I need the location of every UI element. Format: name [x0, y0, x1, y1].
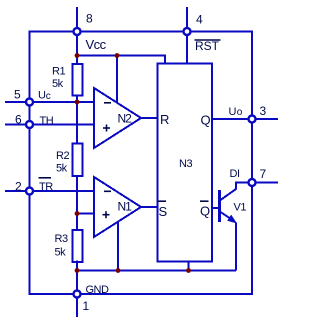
wire Vcc drop to R1: [76, 32, 78, 65]
N1 minus input symbol: [104, 190, 111, 192]
svg-text:Q: Q: [200, 203, 210, 218]
junction N2 supply: [115, 53, 120, 58]
svg-text:RST: RST: [195, 39, 220, 53]
N2 plus input symbol: [103, 127, 110, 129]
pin 1 external lead: [76, 294, 78, 317]
RST overline: [195, 39, 221, 41]
svg-text:N1: N1: [118, 200, 133, 214]
wire N2 output to R input: [140, 117, 158, 119]
wire Q output to pin 3: [212, 118, 252, 120]
transistor V1: [218, 190, 221, 222]
pin 7: [249, 179, 256, 186]
svg-text:S: S: [159, 204, 168, 219]
wire pin2 TR to N1 minus: [30, 190, 95, 192]
svg-text:5k: 5k: [56, 163, 68, 175]
svg-text:5k: 5k: [55, 247, 67, 259]
wire Vcc rail: [77, 56, 165, 65]
wire Qbar to base: [212, 207, 219, 209]
pin 7 external lead: [252, 182, 278, 184]
wire R3 to ground node: [76, 261, 78, 295]
op-amp N1: [94, 177, 141, 237]
wire N3 bottom stub: [188, 262, 190, 271]
svg-text:c: c: [46, 91, 51, 102]
wire bottom rail: [77, 270, 236, 272]
N2 minus input symbol: [104, 102, 111, 104]
wire N1 supply: [117, 222, 119, 271]
svg-text:GND: GND: [86, 284, 110, 296]
svg-text:TR: TR: [39, 181, 53, 193]
pin 4: [184, 28, 191, 35]
svg-text:Vcc: Vcc: [86, 37, 107, 52]
S overline: [158, 200, 166, 202]
transistor V1 emitter arrow: [227, 215, 237, 224]
pin 6 external lead: [5, 124, 30, 126]
pin 3: [249, 116, 256, 123]
svg-text:1: 1: [83, 299, 90, 313]
junction N3 stub/rail: [186, 268, 191, 273]
svg-text:3: 3: [260, 104, 267, 118]
wire pin5 to N2 minus: [30, 101, 95, 103]
svg-text:U: U: [229, 106, 237, 118]
svg-text:R3: R3: [55, 233, 68, 245]
svg-text:6: 6: [15, 112, 22, 126]
svg-text:R1: R1: [52, 66, 65, 78]
pin 2 external lead: [5, 190, 30, 192]
TR overline: [39, 177, 52, 179]
wire divider tap to N1 plus: [77, 213, 94, 215]
svg-text:DI: DI: [230, 168, 240, 180]
svg-text:5k: 5k: [52, 78, 64, 90]
pin 4 external lead: [186, 7, 188, 32]
svg-text:TH: TH: [40, 115, 54, 127]
junction N1 supply/rail: [116, 268, 121, 273]
svg-text:Q: Q: [201, 113, 211, 128]
Qbar overline: [200, 200, 209, 202]
resistor R3: [73, 230, 83, 262]
pin 8 external lead: [76, 7, 78, 32]
resistor R2: [73, 144, 83, 177]
op-amp N2: [94, 88, 141, 148]
resistor R1: [73, 64, 83, 96]
wire R2 to R3 chain: [76, 176, 78, 231]
wire R1 to R2 chain: [76, 95, 78, 144]
junction divider/N1 plus: [75, 211, 80, 216]
svg-text:N2: N2: [118, 112, 133, 126]
junction Vcc/R1: [75, 53, 80, 58]
svg-text:R: R: [160, 112, 169, 127]
svg-text:N3: N3: [179, 158, 192, 170]
svg-text:2: 2: [15, 179, 22, 193]
pin 1: [74, 291, 81, 298]
svg-text:R2: R2: [56, 150, 69, 162]
svg-text:8: 8: [86, 12, 93, 26]
svg-text:U: U: [38, 90, 46, 102]
pin 6: [26, 121, 33, 128]
IC package border: [30, 32, 253, 295]
pin 8: [74, 28, 81, 35]
N1 plus input symbol: [103, 214, 110, 216]
wire N1 output to S input: [140, 206, 158, 208]
svg-text:4: 4: [196, 13, 203, 27]
pin 5 external lead: [5, 101, 30, 103]
pin 5: [26, 99, 33, 106]
pin 2: [26, 188, 33, 195]
wire N2 supply: [116, 56, 118, 104]
pin 3 external lead: [252, 118, 278, 120]
wire pin6 TH to N2 plus: [30, 124, 95, 126]
junction R1/R2/pin5: [75, 100, 80, 105]
svg-text:7: 7: [260, 167, 267, 181]
svg-text:5: 5: [14, 87, 21, 101]
flip-flop N3: [158, 64, 213, 262]
svg-text:V1: V1: [234, 202, 247, 214]
junction R3/bottom rail: [75, 268, 80, 273]
wire RST drop: [186, 32, 188, 64]
